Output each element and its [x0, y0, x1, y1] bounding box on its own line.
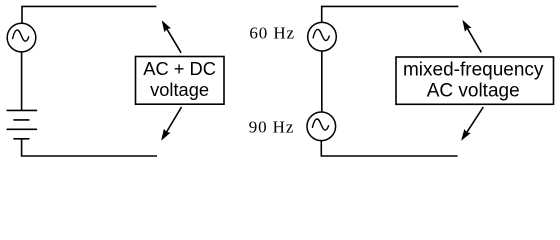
AC voltage source (left circuit): [7, 23, 36, 52]
wire: right circuit bottom rail: [321, 141, 457, 156]
svg-text:mixed-frequency: mixed-frequency: [403, 59, 544, 80]
svg-text:90 Hz: 90 Hz: [249, 118, 295, 137]
label: mixed-frequency AC voltage: [403, 59, 544, 101]
svg-text:60 Hz: 60 Hz: [249, 24, 295, 43]
svg-text:AC voltage: AC voltage: [427, 81, 520, 102]
battery (left circuit): [7, 110, 37, 138]
annotation arrow: to right bottom terminal: [461, 107, 483, 141]
annotation box: mixed-frequency AC voltage: [396, 57, 554, 104]
annotation arrow: to left top terminal: [162, 20, 181, 53]
AC voltage source 60 Hz: [308, 22, 337, 51]
wire: left circuit top rail: [22, 6, 156, 23]
wire: right circuit top rail: [322, 6, 459, 22]
annotation arrow: to left bottom terminal: [161, 107, 181, 141]
label: AC + DC voltage: [143, 58, 216, 100]
wire: between 60 Hz and 90 Hz sources: [321, 51, 323, 112]
annotation arrow: to right top terminal: [462, 20, 481, 53]
wire: left circuit bottom rail: [22, 139, 157, 156]
svg-text:AC + DC: AC + DC: [143, 58, 216, 79]
wire: AC source to battery: [21, 52, 23, 110]
annotation box: AC + DC voltage: [136, 57, 225, 105]
AC voltage source 90 Hz: [307, 112, 336, 141]
svg-text:voltage: voltage: [150, 79, 209, 100]
